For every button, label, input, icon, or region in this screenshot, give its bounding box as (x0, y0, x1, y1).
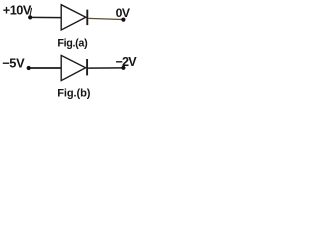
wire: +10V node to diode D1 anode (32, 16, 62, 18)
svg-text:−2V: −2V (116, 55, 138, 69)
wire: diode D2 cathode to -2V node (88, 67, 122, 69)
svg-text:Fig.(b): Fig.(b) (57, 88, 91, 100)
node A (junction dot, +10V input) (28, 15, 32, 19)
node C (junction dot, -5V input) (27, 66, 31, 70)
wire: -5V node to diode D2 anode (30, 67, 61, 69)
diode D1 (Fig.a) triangle (61, 5, 86, 30)
node B (junction dot, 0V output) (121, 18, 125, 22)
wire: diode D1 cathode to 0V node (88, 18, 122, 19)
svg-text:0V: 0V (116, 6, 131, 20)
diode D2 (Fig.b) triangle (61, 55, 85, 80)
diode D1 cathode bar (86, 10, 88, 26)
svg-text:Fig.(a): Fig.(a) (57, 38, 88, 50)
node D (junction dot, -2V output) (121, 66, 125, 70)
svg-text:−5V: −5V (2, 56, 25, 71)
diode D2 cathode bar (86, 59, 88, 75)
lead from +10V label (30, 8, 32, 15)
svg-text:+10V: +10V (3, 2, 32, 17)
